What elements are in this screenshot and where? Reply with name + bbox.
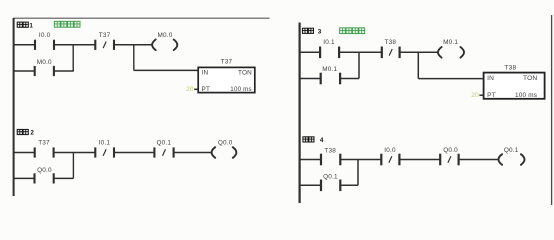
svg-text:T38: T38: [504, 65, 516, 72]
svg-text:IN: IN: [202, 70, 209, 77]
svg-text:T37: T37: [38, 140, 50, 147]
svg-text:M0.1: M0.1: [443, 39, 458, 46]
svg-text:M0.0: M0.0: [157, 32, 172, 39]
svg-text:PT: PT: [487, 92, 496, 99]
svg-text:Q0.1: Q0.1: [156, 139, 171, 146]
svg-text:I0.0: I0.0: [39, 32, 51, 39]
svg-text:PT: PT: [202, 86, 211, 93]
svg-text:I0.1: I0.1: [323, 39, 335, 46]
svg-text:T37: T37: [221, 58, 233, 65]
svg-text:Q0.0: Q0.0: [37, 167, 52, 174]
svg-text:100 ms: 100 ms: [230, 86, 252, 93]
svg-text:IN: IN: [487, 75, 494, 82]
svg-text:Q0.1: Q0.1: [504, 147, 519, 154]
svg-text:Q0.1: Q0.1: [323, 174, 338, 181]
svg-text:20: 20: [186, 86, 194, 93]
svg-text:4: 4: [320, 137, 324, 144]
svg-text:T38: T38: [384, 39, 396, 46]
svg-text:Q0.0: Q0.0: [443, 147, 458, 154]
svg-text:M0.1: M0.1: [322, 66, 337, 73]
svg-text:3: 3: [318, 28, 322, 35]
svg-text:20: 20: [471, 92, 479, 99]
svg-text:1: 1: [29, 22, 33, 29]
svg-text:M0.0: M0.0: [37, 59, 52, 66]
svg-text:100 ms: 100 ms: [515, 92, 537, 99]
svg-text:TON: TON: [238, 70, 252, 77]
svg-text:I0.0: I0.0: [384, 147, 396, 154]
svg-text:T38: T38: [324, 148, 336, 155]
svg-text:TON: TON: [523, 75, 537, 82]
svg-text:Q0.0: Q0.0: [218, 140, 233, 147]
svg-text:I0.1: I0.1: [99, 140, 111, 147]
svg-text:2: 2: [30, 130, 34, 137]
svg-text:T37: T37: [99, 32, 111, 39]
